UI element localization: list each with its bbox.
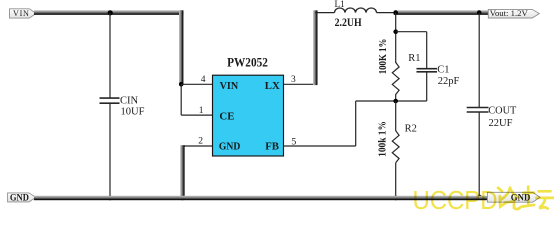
junction dot VIN/CIN bbox=[108, 10, 113, 15]
junction dot LX/R1 node bbox=[393, 10, 398, 15]
svg-text:10UF: 10UF bbox=[121, 107, 145, 118]
junction dot VIN/pin4/CE bbox=[179, 82, 184, 87]
junction dot CIN/GND bus bbox=[108, 196, 113, 201]
svg-text:VIN: VIN bbox=[220, 80, 239, 92]
IC U1 PW2052 buck regulator bbox=[213, 55, 284, 156]
wire pin 1 stub bbox=[181, 114, 212, 116]
resistor R2 bbox=[378, 101, 417, 198]
svg-text:100K 1%: 100K 1% bbox=[378, 39, 389, 75]
svg-text:3: 3 bbox=[291, 75, 296, 85]
svg-text:CIN: CIN bbox=[120, 95, 139, 106]
wire pin 2 stub bbox=[182, 145, 212, 147]
inductor L1 bbox=[335, 0, 377, 29]
capacitor C1 bbox=[396, 32, 460, 101]
svg-text:FB: FB bbox=[265, 141, 279, 153]
wire inductor to node bbox=[377, 12, 396, 14]
net label VIN bbox=[10, 9, 37, 18]
wire CE branch vertical bbox=[180, 84, 182, 115]
svg-text:R2: R2 bbox=[405, 123, 417, 134]
junction dot COUT/GND bus bbox=[477, 195, 482, 200]
junction dot R1/C1 split bbox=[393, 29, 398, 34]
svg-text:COUT: COUT bbox=[488, 106, 517, 117]
svg-text:VIN: VIN bbox=[13, 9, 30, 18]
wire LX vertical riser (thick) bbox=[313, 10, 317, 85]
svg-text:UCCPD: UCCPD bbox=[413, 185, 498, 215]
svg-text:GND: GND bbox=[10, 194, 29, 204]
wire GND bus (thick) bbox=[34, 196, 487, 201]
capacitor CIN bbox=[100, 13, 145, 198]
net label Vout 1.2V bbox=[488, 9, 539, 18]
capacitor COUT bbox=[467, 13, 517, 198]
svg-text:L1: L1 bbox=[335, 0, 346, 9]
net label GND (left) bbox=[8, 193, 36, 204]
wire VIN vertical drop to pin 4 (thick) bbox=[179, 10, 183, 85]
hand-drawn CJK: tan bbox=[523, 187, 554, 209]
svg-text:1: 1 bbox=[199, 106, 204, 116]
svg-text:R1: R1 bbox=[408, 53, 420, 64]
junction dot FB node bbox=[393, 99, 398, 104]
wire Vout top horizontal (thick) bbox=[394, 10, 489, 15]
svg-text:2: 2 bbox=[198, 137, 203, 147]
svg-text:C1: C1 bbox=[437, 64, 449, 75]
net label GND (right) bbox=[487, 192, 540, 202]
junction dot Vout/COUT node bbox=[477, 10, 482, 15]
wire node to R1/C1 split bbox=[395, 13, 397, 63]
svg-text:GND: GND bbox=[219, 141, 241, 153]
svg-text:4: 4 bbox=[201, 75, 206, 85]
wire pin 4 stub bbox=[181, 83, 213, 85]
wire VIN top horizontal (thick) bbox=[34, 10, 183, 15]
junction dot R2/GND bus bbox=[393, 196, 398, 201]
svg-text:CE: CE bbox=[219, 110, 234, 122]
svg-text:Vout: 1.2V: Vout: 1.2V bbox=[490, 9, 528, 18]
wire pin 3 stub bbox=[284, 83, 316, 85]
hand-drawn CJK: lun bbox=[498, 188, 521, 210]
wire FB from pin 5 bbox=[284, 101, 396, 146]
wire LX top to inductor bbox=[315, 12, 335, 14]
svg-text:100k 1%: 100k 1% bbox=[378, 121, 389, 157]
watermark UCCPD forum bbox=[413, 185, 554, 215]
resistor R1 bbox=[378, 39, 421, 101]
wire pin 2 vertical to ground (thick) bbox=[180, 145, 184, 199]
svg-text:PW2052: PW2052 bbox=[227, 55, 268, 70]
svg-text:22pF: 22pF bbox=[438, 76, 460, 87]
junction dot pin2/GND bus bbox=[180, 196, 185, 201]
svg-text:LX: LX bbox=[265, 80, 280, 92]
svg-text:22UF: 22UF bbox=[489, 118, 513, 129]
svg-text:2.2UH: 2.2UH bbox=[335, 17, 362, 29]
